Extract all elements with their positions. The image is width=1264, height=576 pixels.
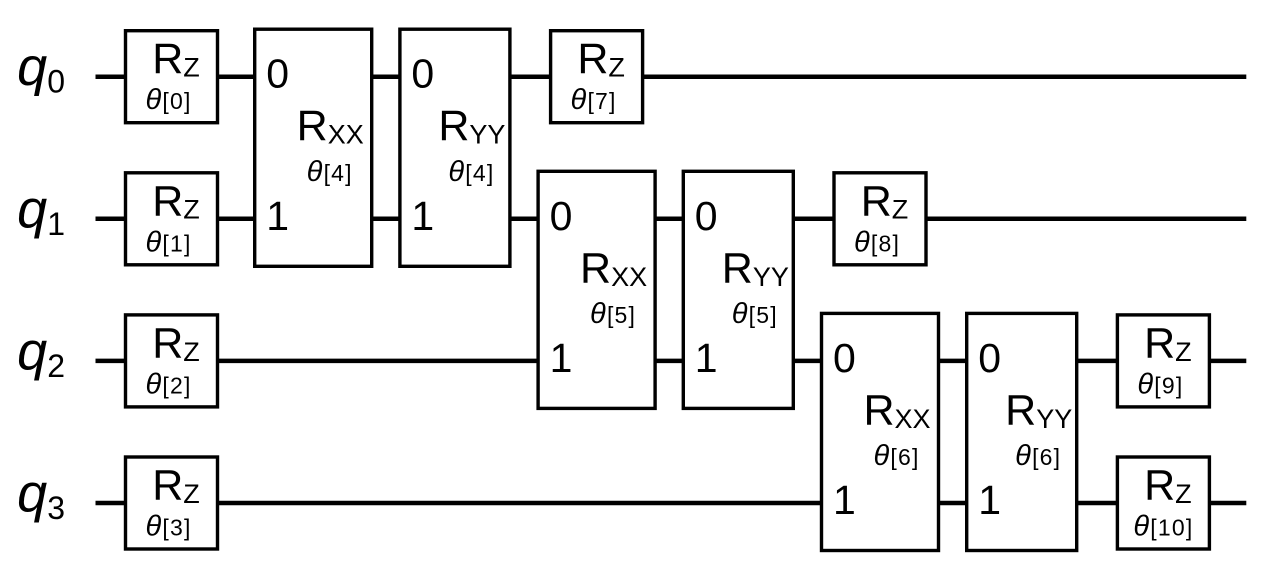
qubit label q2 bbox=[17, 321, 65, 384]
svg-text:θ[1]: θ[1] bbox=[145, 226, 191, 258]
gate RZ theta[10] on q3 bbox=[1117, 457, 1209, 549]
gate RXX theta[6] on q2,q3 bbox=[822, 313, 939, 550]
svg-text:θ[5]: θ[5] bbox=[732, 298, 778, 330]
svg-text:θ[6]: θ[6] bbox=[1015, 440, 1061, 472]
svg-text:1: 1 bbox=[266, 193, 289, 239]
pin 0 of RYY theta[6] bbox=[978, 335, 1001, 381]
gate RZ theta[9] on q2 bbox=[1117, 315, 1209, 407]
svg-text:1: 1 bbox=[550, 335, 573, 381]
svg-text:0: 0 bbox=[833, 335, 856, 381]
svg-text:0: 0 bbox=[266, 51, 289, 97]
svg-text:1: 1 bbox=[695, 335, 718, 381]
wire q0 bbox=[96, 74, 1247, 79]
svg-text:1: 1 bbox=[833, 477, 856, 523]
pin 0 of RXX theta[4] bbox=[266, 51, 289, 97]
gate RYY theta[5] on q1,q2 bbox=[683, 171, 793, 408]
svg-text:θ[10]: θ[10] bbox=[1133, 511, 1193, 543]
qubit label q3 bbox=[17, 464, 65, 527]
gate RZ theta[7] on q0 bbox=[551, 31, 643, 123]
svg-text:θ[9]: θ[9] bbox=[1137, 368, 1183, 400]
svg-text:0: 0 bbox=[550, 193, 573, 239]
pin 1 of RXX theta[5] bbox=[550, 335, 573, 381]
gate RZ theta[0] on q0 bbox=[126, 31, 218, 123]
gate RXX theta[5] on q1,q2 bbox=[538, 171, 655, 408]
svg-text:1: 1 bbox=[978, 477, 1001, 523]
svg-text:1: 1 bbox=[411, 193, 434, 239]
svg-text:θ[0]: θ[0] bbox=[145, 84, 191, 116]
pin 0 of RXX theta[6] bbox=[833, 335, 856, 381]
svg-text:0: 0 bbox=[695, 193, 718, 239]
svg-text:θ[8]: θ[8] bbox=[854, 226, 900, 258]
svg-text:θ[4]: θ[4] bbox=[448, 156, 494, 188]
gate RYY theta[6] on q2,q3 bbox=[967, 313, 1077, 550]
gate RZ theta[3] on q3 bbox=[126, 457, 218, 549]
svg-text:0: 0 bbox=[411, 51, 434, 97]
qubit label q1 bbox=[17, 179, 65, 242]
svg-text:θ[3]: θ[3] bbox=[145, 511, 191, 543]
pin 1 of RXX theta[6] bbox=[833, 477, 856, 523]
wire q1 bbox=[96, 217, 1247, 222]
pin 1 of RYY theta[5] bbox=[695, 335, 718, 381]
pin 1 of RYY theta[6] bbox=[978, 477, 1001, 523]
svg-text:θ[4]: θ[4] bbox=[307, 156, 353, 188]
pin 1 of RYY theta[4] bbox=[411, 193, 434, 239]
gate RXX theta[4] on q0,q1 bbox=[255, 29, 372, 266]
pin 0 of RXX theta[5] bbox=[550, 193, 573, 239]
gate RZ theta[8] on q1 bbox=[834, 173, 926, 265]
pin 0 of RYY theta[4] bbox=[411, 51, 434, 97]
svg-text:θ[5]: θ[5] bbox=[590, 298, 636, 330]
qubit label q0 bbox=[17, 37, 65, 100]
pin 0 of RYY theta[5] bbox=[695, 193, 718, 239]
svg-text:0: 0 bbox=[978, 335, 1001, 381]
svg-text:θ[2]: θ[2] bbox=[145, 368, 191, 400]
svg-text:θ[6]: θ[6] bbox=[873, 440, 919, 472]
wire q3 bbox=[96, 501, 1247, 506]
svg-text:θ[7]: θ[7] bbox=[571, 84, 617, 116]
pin 1 of RXX theta[4] bbox=[266, 193, 289, 239]
gate RZ theta[1] on q1 bbox=[126, 173, 218, 265]
wire q2 bbox=[96, 359, 1247, 364]
gate RZ theta[2] on q2 bbox=[126, 315, 218, 407]
gate RYY theta[4] on q0,q1 bbox=[400, 29, 510, 266]
